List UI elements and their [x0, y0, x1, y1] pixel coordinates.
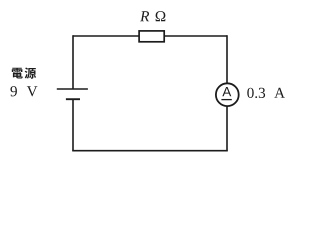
ammeter reading 0.3 — [247, 88, 265, 98]
resistor label R (italic) — [140, 11, 149, 21]
wire right branch, ammeter to bottom rail — [226, 106, 228, 151]
battery value 9 — [10, 86, 16, 96]
wire bottom rail — [72, 150, 228, 152]
battery unit V — [27, 86, 38, 96]
resistor R (box body) — [139, 31, 164, 42]
ammeter body (circle) — [216, 83, 239, 106]
resistor unit label Ω — [156, 11, 166, 21]
battery long plate (+) — [57, 88, 88, 90]
battery short plate (-) — [66, 98, 80, 100]
battery label glyph 電 — [12, 68, 23, 79]
ammeter letter A — [222, 87, 231, 96]
wire top rail, right of resistor — [164, 35, 227, 37]
ammeter letter underline — [221, 99, 231, 101]
battery label glyph 源 — [25, 68, 36, 79]
ammeter reading unit A — [274, 88, 285, 98]
wire top rail, left of resistor — [73, 35, 140, 37]
wire left branch, battery plate to bottom rail — [72, 99, 74, 151]
wire left branch, top rail to battery plate — [72, 35, 74, 89]
wire right branch, top rail to ammeter — [226, 35, 228, 83]
